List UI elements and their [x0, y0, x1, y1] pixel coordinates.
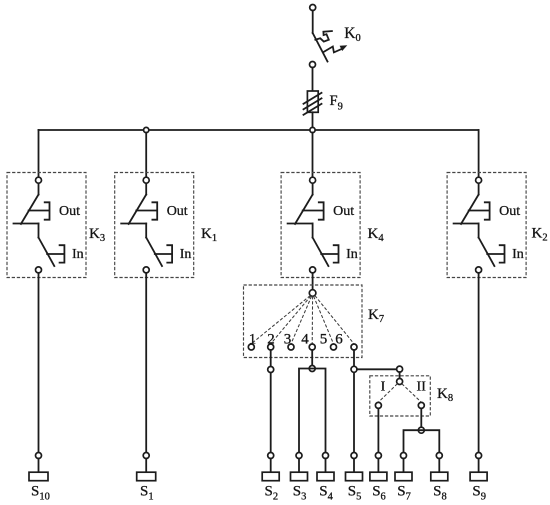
- junction node bus/F9: [310, 127, 315, 132]
- wire node to S8: [438, 459, 440, 473]
- wire node to S6: [377, 459, 379, 473]
- junction node on S2 wire: [268, 367, 274, 373]
- K7 pole node: [309, 290, 316, 297]
- wire K3 to S10: [38, 273, 40, 453]
- wire K8 contact II down: [420, 408, 422, 430]
- terminal S4: [317, 472, 334, 481]
- K7 contact 5: [331, 344, 337, 350]
- wire node to S5: [353, 459, 355, 473]
- wire split bar to S3 and S4: [299, 369, 326, 453]
- K7 contact 4: [309, 344, 315, 350]
- wire bus to K3: [38, 130, 40, 177]
- wire node to S7: [403, 459, 405, 473]
- node between K0 and F9: [310, 62, 316, 68]
- node above S5: [351, 453, 357, 459]
- selector K7: [244, 285, 363, 358]
- K8 dashed wire to contact II: [402, 384, 422, 403]
- node above S8: [436, 453, 442, 459]
- K8 pole node: [397, 379, 403, 385]
- node above S6: [375, 453, 381, 459]
- wire node to K8 pole: [399, 372, 401, 378]
- junction node contact II split: [418, 427, 424, 433]
- node above S3: [296, 453, 302, 459]
- terminal S6: [370, 472, 387, 481]
- wire K2 to S9: [478, 273, 480, 453]
- terminal S5: [346, 472, 363, 481]
- K7 contact 3: [288, 344, 294, 350]
- wire node to S2: [270, 459, 272, 473]
- wire bus to K2: [478, 130, 480, 177]
- wire K7 contact6 to S5: [353, 350, 355, 453]
- K7 contact 6: [351, 344, 357, 350]
- contactor K3: [7, 173, 86, 278]
- junction node contact4 split: [309, 366, 315, 372]
- svg-text:5: 5: [320, 332, 328, 348]
- terminal S7: [395, 472, 412, 481]
- wire K8 contact I to S6: [377, 408, 379, 452]
- wire split bar to S7 and S8: [404, 430, 440, 452]
- terminal S3: [291, 472, 308, 481]
- wire K7 contact2 to S2: [270, 350, 272, 453]
- wire node to fuse F9: [312, 68, 314, 92]
- contactor K4: [281, 173, 360, 278]
- svg-text:I: I: [381, 379, 386, 394]
- junction node above K8: [397, 366, 403, 372]
- wire K1 to S1: [145, 273, 147, 453]
- terminal S2: [262, 472, 279, 481]
- K8 contact II: [418, 402, 424, 408]
- wire node to S4: [325, 459, 327, 473]
- wire branch to K8: [357, 368, 400, 370]
- selector K8: [370, 376, 431, 416]
- wire node to S3: [298, 459, 300, 473]
- node above S10: [36, 453, 42, 459]
- K7 contact 2: [268, 344, 274, 350]
- wire fuse to bus: [312, 112, 314, 130]
- bus wire: [39, 129, 479, 131]
- junction node bus/K1: [144, 127, 149, 132]
- wire K4 to K7 pole: [312, 273, 314, 290]
- node above S7: [401, 453, 407, 459]
- wire node to S9: [478, 459, 480, 473]
- K8 contact I: [375, 402, 381, 408]
- K7 fan dashed wires: [251, 296, 310, 344]
- wire node to S10: [38, 459, 40, 473]
- node: top supply terminal: [310, 5, 316, 11]
- svg-text:4: 4: [301, 332, 309, 348]
- K7 contact 1: [248, 344, 254, 350]
- node above S4: [323, 453, 329, 459]
- node above S2: [268, 453, 274, 459]
- junction node contact6 branch: [351, 366, 357, 372]
- terminal S10: [29, 472, 48, 481]
- contactor K1: [115, 173, 194, 278]
- terminal S8: [431, 472, 448, 481]
- wire node to S1: [145, 459, 147, 473]
- contactor K2: [447, 173, 526, 278]
- wire bus to K4: [312, 133, 314, 178]
- K8 dashed wire to contact I: [378, 384, 397, 403]
- terminal S1: [137, 472, 156, 481]
- node above S9: [476, 453, 482, 459]
- terminal S9: [470, 472, 487, 481]
- fuse F9: [304, 91, 322, 115]
- wire K7 contact4 down: [311, 350, 313, 369]
- wire bus to K1: [145, 133, 147, 178]
- node above S1: [143, 453, 149, 459]
- wire top terminal to K0: [312, 11, 314, 34]
- circuit breaker K0: [313, 31, 348, 61]
- svg-text:II: II: [417, 379, 427, 394]
